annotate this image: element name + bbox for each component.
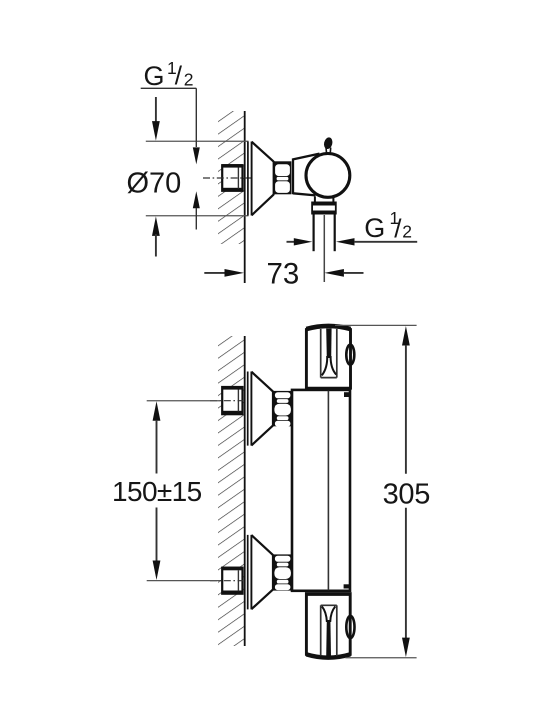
dimension 73 right	[324, 269, 344, 277]
wall face line (top view)	[244, 111, 246, 283]
hex nut in wall (bottom connection)	[222, 568, 242, 594]
escutcheon rim (top connection)	[247, 372, 249, 446]
svg-text:73: 73	[267, 258, 300, 291]
safety stop button (bottom)	[346, 616, 354, 638]
knob circle (top view)	[306, 154, 350, 198]
centerline nut (top view)	[203, 177, 251, 179]
dimension arrow Ø70 upper	[155, 97, 157, 123]
dimension line 150 lower	[156, 508, 158, 563]
temperature handle grip panel	[320, 329, 322, 378]
outlet neck (top view)	[314, 197, 316, 203]
leader underline G 1/2	[141, 87, 197, 89]
body detail mark top	[344, 392, 350, 397]
hex nut in wall (top connection)	[222, 387, 242, 414]
wall hatch (top view)	[218, 111, 245, 244]
union nut (top view)	[274, 161, 292, 194]
leader line G 1/2 down	[195, 88, 197, 147]
extension line 305 top	[335, 324, 417, 326]
volume handle bottom cap	[306, 654, 350, 657]
svg-text:/: /	[394, 213, 402, 243]
temperature handle top cap	[306, 326, 350, 329]
extension line Ø70 top	[146, 140, 249, 142]
valve body (top view)	[293, 154, 320, 196]
extension line Ø70 bottom	[146, 215, 249, 217]
escutcheon cone (top connection)	[251, 372, 273, 392]
svg-text:G: G	[364, 213, 385, 243]
union nut (bottom connection)	[273, 554, 292, 590]
centerline bottom connection	[210, 580, 243, 582]
dimension line 305 lower	[405, 508, 407, 639]
dimension 73 left	[204, 272, 227, 274]
volume handle grip panel	[320, 605, 322, 655]
pipe centerline (top view)	[323, 215, 325, 282]
extension line 305 bottom	[345, 657, 416, 659]
dimension arrows G 1/2 pipe	[287, 241, 296, 243]
svg-text:/: /	[175, 61, 183, 91]
volume handle top bar	[306, 593, 349, 596]
extension line bottom connection	[147, 580, 220, 582]
escutcheon cone (bottom connection)	[251, 535, 273, 555]
body seam line	[327, 391, 329, 591]
safety stop button (top)	[346, 345, 354, 365]
escutcheon cone (top view)	[252, 142, 274, 162]
svg-text:2: 2	[402, 222, 412, 242]
wall face line (front view)	[244, 336, 246, 646]
pipe outlet (top view)	[313, 214, 315, 251]
svg-text:Ø70: Ø70	[127, 168, 182, 200]
dimension line 305 upper	[402, 326, 410, 346]
mixer body	[292, 390, 350, 591]
svg-text:150±15: 150±15	[112, 476, 202, 507]
svg-text:305: 305	[383, 478, 431, 510]
outlet nut band (top view)	[312, 202, 336, 213]
volume handle grip inlay	[322, 606, 327, 622]
wall hatch (front view)	[218, 336, 245, 646]
leader arrow G 1/2 up	[193, 191, 200, 208]
centerline top connection	[210, 400, 243, 402]
extension line top connection	[147, 400, 220, 402]
dimension line 150 upper	[153, 401, 161, 421]
temperature handle grip inlay	[326, 329, 331, 359]
lever knob (top view)	[323, 136, 334, 149]
hex nut in wall (top view)	[222, 165, 242, 191]
union nut (top connection)	[273, 391, 292, 426]
handle bottom edge	[306, 387, 350, 389]
escutcheon rim lines (top view)	[247, 142, 249, 216]
temperature handle outline	[306, 326, 350, 388]
volume handle outline	[306, 594, 350, 658]
dimension arrow Ø70 lower	[152, 216, 160, 236]
svg-text:G: G	[144, 61, 165, 91]
body detail mark bottom	[344, 584, 350, 588]
escutcheon rim (bottom connection)	[247, 535, 249, 610]
svg-text:2: 2	[184, 70, 194, 90]
